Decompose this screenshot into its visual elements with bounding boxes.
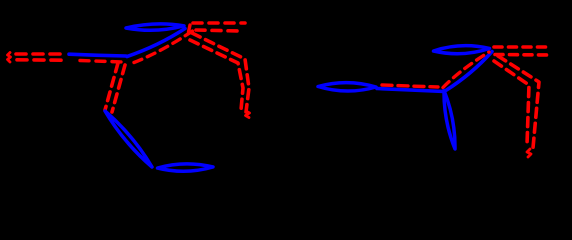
left molecule: red dashed diagonal below blue bond (134, 30, 194, 63)
right molecule: vertical blue orbital ellipse (444, 91, 455, 150)
left molecule: blue diagonal bond B to A (127, 29, 185, 57)
right molecule: top blue orbital ellipse (434, 46, 490, 54)
left molecule: bottom end squiggle of right chain (246, 111, 250, 118)
left molecule: top-right double dashed bond, lower chain (196, 30, 239, 31)
right molecule: horizontal blue bond to D (377, 89, 444, 92)
left molecule: right curved double dashed chain, outer (192, 33, 249, 112)
right molecule: left horizontal blue orbital ellipse (318, 83, 376, 91)
left molecule: bottom horizontal blue orbital ellipse (158, 164, 214, 171)
left molecule: far-left double dashed bond, lower dashes (17, 58, 63, 62)
left molecule: diagonal blue orbital ellipse (105, 111, 152, 167)
left molecule: red dashed under horizontal bond (80, 61, 123, 63)
left molecule: right curved double dashed chain, inner (190, 40, 243, 110)
right molecule: red dashed parallel to diagonal bond (443, 52, 489, 88)
left molecule: far-left double dashed bond, upper dashes (16, 52, 62, 56)
left molecule: far-left end squiggle (8, 53, 11, 63)
right molecule: right curved double dashed chain, outer (498, 56, 539, 148)
right molecule: blue diagonal bond D to E (445, 52, 492, 92)
right molecule: top-right double dashed bond, lower chain (495, 53, 548, 57)
left molecule: top-right double dashed bond, upper chain (193, 21, 245, 25)
right molecule: bottom end squiggle of right chain (527, 149, 531, 157)
left molecule: left double dashed chain from B, right line (112, 65, 125, 112)
right molecule: red dashed above horizontal bond (382, 85, 438, 87)
left molecule: horizontal blue bond (69, 54, 126, 56)
left molecule: left double dashed chain from B, left line (105, 63, 118, 110)
left molecule: small red dash at junction A (189, 25, 191, 32)
left molecule: top blue orbital ellipse (126, 24, 184, 30)
right molecule: right curved double dashed chain, inner (494, 61, 529, 145)
right molecule: top-right double dashed bond, upper chain (494, 45, 549, 49)
